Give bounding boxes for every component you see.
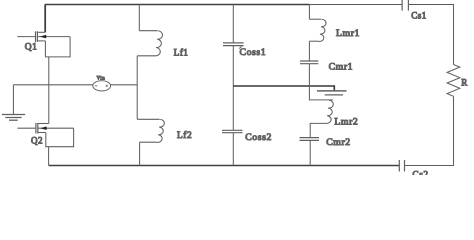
wire Lmr1 top drop (308, 5, 310, 20)
wire Q2 source/body loop (46, 128, 74, 147)
wire Lf2 to bottom rail (139, 142, 141, 165)
wire Vin to Lf junction (111, 84, 138, 86)
wire midpoint node Q1-Q2 (48, 57, 50, 124)
inductor Lmr2 (326, 100, 333, 123)
source Vin (93, 81, 111, 91)
wire top rail right of Cs1 (409, 4, 454, 6)
svg-text:Coss1: Coss1 (240, 47, 267, 58)
svg-text:Vin: Vin (97, 77, 106, 82)
svg-text:Cmr2: Cmr2 (326, 137, 351, 148)
wire Lf1 top drop (138, 5, 140, 31)
wire Lmr1 to Cmr1 (308, 41, 310, 60)
inductor Lmr1 (309, 19, 326, 41)
wire bottom rail right of Cs2 (405, 165, 454, 167)
capacitor Cmr2 (300, 138, 320, 141)
wire bottom rail left (49, 165, 399, 167)
svg-text:Lf2: Lf2 (177, 130, 192, 141)
wire Q1 drain to top rail (44, 5, 46, 33)
wire Coss mid column (232, 46, 234, 130)
capacitor Coss2 (222, 130, 243, 132)
svg-text:Cmr1: Cmr1 (329, 61, 354, 72)
wire Cmr1 down and jog to Lmr2 (309, 64, 333, 100)
wire right rail lower (453, 96, 455, 165)
svg-text:Lmr2: Lmr2 (334, 117, 358, 128)
wire Vin net (13, 84, 92, 86)
wire ground riser left (12, 85, 14, 114)
wire Cmr2 to bottom rail (309, 141, 311, 166)
capacitor Cmr1 (300, 61, 318, 64)
inductor Lf1 (137, 31, 162, 56)
svg-text:Lf1: Lf1 (174, 48, 189, 58)
wire Coss2 to bottom rail (232, 133, 234, 166)
wire top rail left (45, 4, 310, 6)
wire Q2 source to bottom rail (48, 147, 50, 166)
svg-text:R: R (461, 77, 468, 87)
resistor R (447, 65, 460, 97)
svg-text:Q2: Q2 (31, 135, 43, 145)
svg-text:Lmr1: Lmr1 (336, 28, 360, 39)
wire Lmr2 exit (310, 123, 326, 137)
capacitor Coss1 (223, 43, 244, 49)
transistor Q2 (17, 123, 73, 134)
wire Q1 source/body loop (45, 37, 70, 57)
capacitor Cs1 (402, 0, 408, 11)
svg-text:Cs1: Cs1 (411, 11, 427, 21)
transistor Q1 (17, 31, 70, 42)
wire Lf junction (136, 56, 138, 120)
wire Coss top drop (232, 5, 234, 43)
ground left (2, 115, 25, 121)
svg-text:Cs2: Cs2 (412, 171, 428, 175)
capacitor Cs2 (399, 160, 404, 172)
svg-text:Q1: Q1 (25, 43, 38, 53)
wire mid rail to ground (233, 86, 334, 90)
ground right (317, 91, 347, 95)
inductor Lf2 (137, 119, 164, 142)
svg-text:Coss2: Coss2 (245, 132, 272, 143)
wire right rail upper (453, 4, 455, 65)
